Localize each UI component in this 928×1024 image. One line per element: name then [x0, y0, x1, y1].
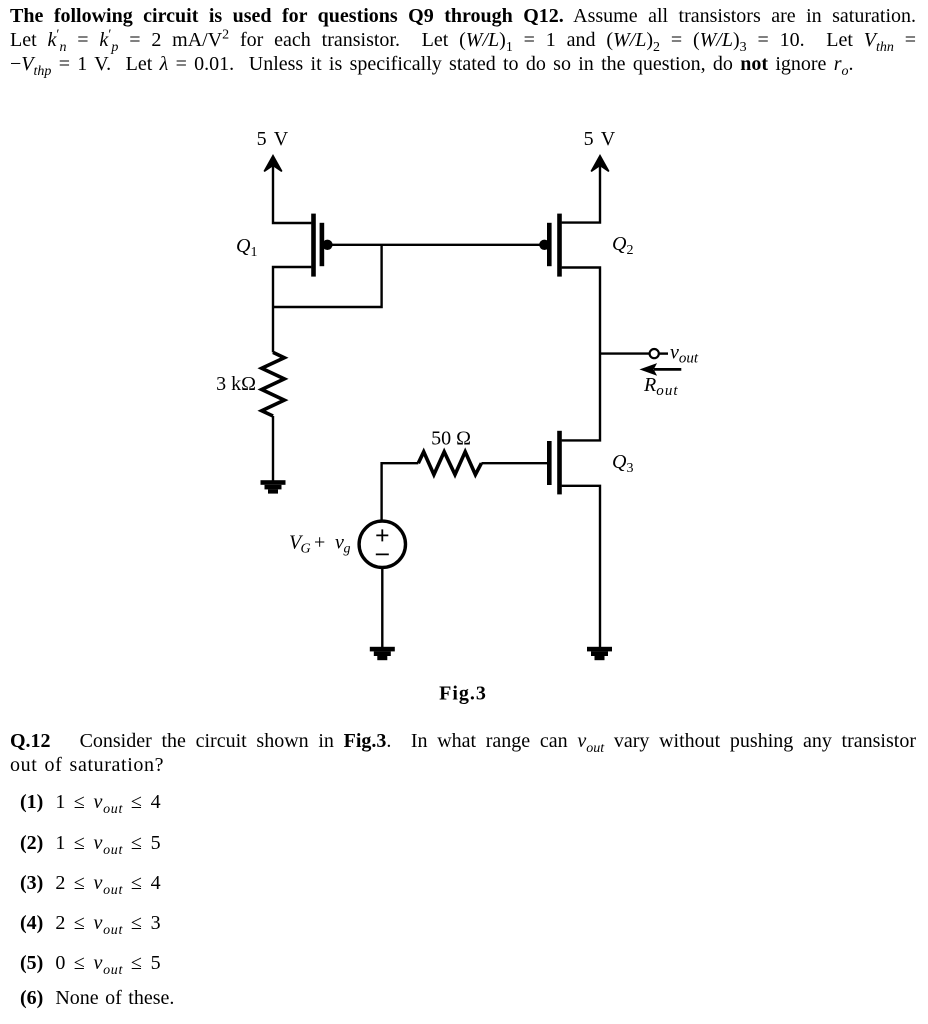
svg-text:5 V: 5 V	[584, 128, 617, 150]
supply arrowhead left (5 V)	[264, 156, 282, 172]
svg-text:Q3: Q3	[612, 451, 633, 476]
ground symbol (3k resistor)	[261, 480, 286, 493]
wire: Q1 drain lead and drain vertical	[273, 267, 311, 352]
transistor Q1 PMOS gate dot	[322, 240, 332, 250]
ground symbol (Q3 source)	[587, 647, 612, 660]
svg-text:Rout: Rout	[643, 374, 679, 399]
wire: Q3 source to ground	[562, 486, 600, 648]
svg-text:Fig.3: Fig.3	[439, 683, 487, 705]
svg-text:VG+vg: VG+vg	[289, 532, 351, 557]
wire: 3k resistor bottom to ground	[272, 416, 274, 482]
wire: right 5V supply vertical and Q2 source lead	[562, 159, 600, 223]
resistor 3 kOhm zigzag	[262, 352, 285, 416]
options list	[20, 790, 520, 792]
transistor Q1 channel bar	[311, 214, 316, 277]
svg-text:vout: vout	[670, 342, 699, 367]
transistor Q2 channel bar	[557, 214, 562, 277]
header paragraph	[10, 4, 916, 76]
wire: 50 ohm resistor left lead and source vertical	[382, 463, 419, 521]
wire: Q2 drain down to Q3 drain	[562, 268, 600, 441]
Rout direction arrow	[641, 364, 681, 374]
wire: gate bus Q1 to Q2	[327, 244, 545, 246]
svg-text:5 V: 5 V	[257, 128, 290, 150]
transistor Q2 gate bar	[547, 223, 552, 266]
transistor Q1 gate bar	[320, 223, 325, 266]
circuit schematic	[0, 0, 928, 720]
svg-text:50 Ω: 50 Ω	[431, 428, 471, 450]
node vout terminal circle	[650, 349, 659, 358]
transistor Q3 channel bar	[557, 431, 562, 495]
wire: voltage source bottom to ground	[381, 568, 383, 648]
resistor 50 Ohm zigzag	[418, 452, 481, 475]
svg-text:Q2: Q2	[612, 233, 633, 258]
wire: left 5V supply vertical	[273, 159, 311, 223]
wire: vout stub	[600, 352, 650, 354]
wire: Q3 gate lead from 50 ohm resistor	[481, 462, 547, 464]
svg-text:Q1: Q1	[236, 235, 257, 260]
supply arrowhead right (5 V)	[591, 156, 609, 172]
transistor Q2 PMOS gate dot	[539, 240, 549, 250]
svg-text:3 kΩ: 3 kΩ	[216, 373, 256, 395]
voltage source VG+vg circle	[359, 521, 405, 567]
wire: diode-connect feedback from gate node down to drain	[273, 246, 382, 307]
wire: vout terminal tail	[659, 352, 668, 354]
transistor Q3 gate bar	[547, 441, 552, 485]
ground symbol (voltage source)	[370, 647, 395, 660]
question Q.12 paragraph	[10, 729, 916, 777]
